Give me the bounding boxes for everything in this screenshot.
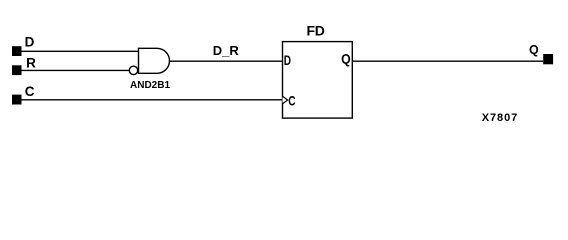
terminal pad D xyxy=(12,46,22,56)
svg-text:D: D xyxy=(25,34,35,49)
svg-text:X7807: X7807 xyxy=(482,112,518,124)
svg-text:Q: Q xyxy=(341,51,351,67)
svg-text:D_R: D_R xyxy=(213,43,240,58)
svg-text:C: C xyxy=(25,84,35,99)
svg-text:R: R xyxy=(26,55,36,70)
svg-text:D: D xyxy=(284,52,291,68)
and-gate AND2B1 body xyxy=(139,48,170,73)
svg-text:C: C xyxy=(288,93,295,109)
wire D input to AND2B1 top input xyxy=(22,50,139,52)
wire R input to AND2B1 inverted input xyxy=(22,69,130,71)
flip-flop FD body xyxy=(283,42,353,119)
terminal pad R xyxy=(12,65,22,75)
svg-text:FD: FD xyxy=(307,23,325,39)
svg-text:AND2B1: AND2B1 xyxy=(130,80,170,91)
terminal pad Q xyxy=(543,54,553,64)
wire C input to FD clock input xyxy=(22,99,283,101)
clock triangle xyxy=(283,96,288,103)
terminal pad C xyxy=(12,95,22,105)
wire Q (FD output to Q terminal) xyxy=(352,60,543,62)
inversion bubble on AND2B1 lower input xyxy=(129,66,137,74)
wire D_R (AND2B1 output to FD D input) xyxy=(170,60,283,62)
svg-text:Q: Q xyxy=(529,43,539,57)
